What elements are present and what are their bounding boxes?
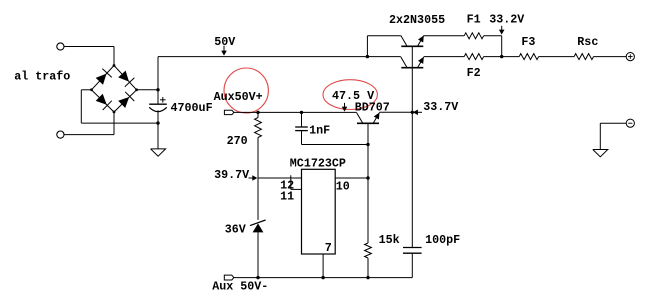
wire (pin 10) xyxy=(335,177,368,179)
wire xyxy=(539,56,575,58)
resistor R2 15k xyxy=(365,243,372,258)
svg-text:al trafo: al trafo xyxy=(14,69,70,83)
node xyxy=(300,111,303,114)
svg-text:36V: 36V xyxy=(225,223,246,237)
wire xyxy=(594,56,627,58)
label 50V with arrow xyxy=(214,35,235,56)
svg-text:15k: 15k xyxy=(379,233,400,247)
wire xyxy=(484,35,502,37)
pin label 11 xyxy=(280,189,294,203)
node xyxy=(321,276,324,279)
wire (pin 11 tie to pin 12) xyxy=(291,175,302,189)
node xyxy=(156,88,159,91)
svg-text:50V: 50V xyxy=(214,35,235,49)
wire (Aux 50V- rail) xyxy=(234,277,412,279)
node xyxy=(366,55,369,58)
part label F3 xyxy=(521,35,535,49)
resistor F3 xyxy=(519,54,538,60)
label 33.7V with arrow xyxy=(413,100,458,115)
resistor R1 270 xyxy=(255,112,262,178)
capacitor C3 100pF xyxy=(403,248,422,278)
label al trafo xyxy=(14,69,70,83)
node (bridge bottom vertex) xyxy=(113,111,116,114)
terminal J4 (output -) xyxy=(626,119,634,127)
part label 2x2N3055 xyxy=(389,13,445,27)
diode D2 (top vertex to right vertex) xyxy=(118,71,134,87)
wire (Aux50V+ net) xyxy=(234,111,357,113)
label 39.7V with arrow xyxy=(214,168,257,182)
part label BD707 xyxy=(355,101,390,115)
wire (pin 12) xyxy=(258,177,302,179)
pin label 7 xyxy=(325,241,332,255)
wire (base rail of Q1/Q2 down to 33.7V node) xyxy=(411,46,413,112)
node xyxy=(366,276,369,279)
svg-text:270: 270 xyxy=(227,134,248,148)
label 33.2V with arrow xyxy=(489,12,524,34)
part label F1 xyxy=(467,12,481,26)
connector (Aux50V+ tab) xyxy=(224,110,234,114)
terminal J2 (AC input, bottom) xyxy=(57,131,64,138)
node xyxy=(366,143,369,146)
svg-text:33.2V: 33.2V xyxy=(489,12,524,26)
node xyxy=(411,111,414,114)
wire (BD707 base lead) xyxy=(367,123,369,144)
wire xyxy=(64,112,114,135)
node xyxy=(256,276,259,279)
svg-text:F1: F1 xyxy=(467,12,481,26)
wire xyxy=(367,145,369,244)
node (bridge top vertex) xyxy=(113,64,116,67)
node (bridge left vertex) xyxy=(90,88,93,91)
wire xyxy=(600,123,626,149)
part label MC1723CP xyxy=(290,157,346,171)
value label 36V xyxy=(225,223,246,237)
resistor Rsc xyxy=(574,54,593,60)
transistor Q1 2N3055 (upper) xyxy=(401,36,424,47)
label Aux 50V- xyxy=(212,279,268,293)
capacitor C1 4700uF (polarized) xyxy=(149,97,167,112)
highlight ellipse (red) around Aux50V+ xyxy=(224,68,268,113)
value label 15k xyxy=(379,233,400,247)
node xyxy=(256,111,259,114)
wire xyxy=(302,144,369,146)
terminal J3 (output +) xyxy=(626,53,634,61)
wire xyxy=(411,112,413,247)
svg-text:Rsc: Rsc xyxy=(577,35,598,49)
wire (50V rail) xyxy=(158,56,401,58)
svg-text:F3: F3 xyxy=(521,35,535,49)
wire xyxy=(257,232,259,277)
svg-text:100pF: 100pF xyxy=(425,233,460,247)
highlight ellipse (red) around 47.5 V xyxy=(323,80,377,110)
diode D4 (bottom vertex to right vertex) xyxy=(118,92,134,108)
resistor F1 xyxy=(464,33,483,39)
label 47.5 V with arrow xyxy=(332,89,374,112)
value label 4700uF xyxy=(171,101,213,115)
svg-text:4700uF: 4700uF xyxy=(171,101,213,115)
wire (BD707 emitter to base rail) xyxy=(380,111,413,113)
ground xyxy=(593,150,608,157)
node xyxy=(366,176,369,179)
node xyxy=(500,55,503,58)
ground xyxy=(151,149,166,156)
label Aux50V+ xyxy=(214,90,263,104)
value label 100pF xyxy=(425,233,460,247)
pin label 10 xyxy=(336,179,350,193)
terminal J1 (AC input, top) xyxy=(57,43,64,50)
op-amp U1 MC1723CP (voltage regulator box) xyxy=(302,169,336,254)
capacitor C2 1nF xyxy=(295,112,308,144)
wire (bridge diamond) xyxy=(92,66,137,113)
wire xyxy=(157,57,159,105)
wire xyxy=(81,90,158,123)
svg-text:7: 7 xyxy=(325,241,332,255)
value label 270 xyxy=(227,134,248,148)
wire xyxy=(157,110,159,148)
transistor Q3 BD707 (driver) xyxy=(357,113,380,124)
node xyxy=(156,121,159,124)
svg-text:MC1723CP: MC1723CP xyxy=(290,157,346,171)
transistor Q2 2N3055 (lower) xyxy=(401,57,424,68)
diode D3 (left vertex to bottom vertex) xyxy=(96,94,112,110)
svg-text:Aux 50V-: Aux 50V- xyxy=(212,279,268,293)
wire xyxy=(64,47,114,66)
svg-text:1nF: 1nF xyxy=(309,123,330,137)
wire (Q1 collector branch) xyxy=(367,36,400,57)
wire xyxy=(424,56,464,58)
svg-text:11: 11 xyxy=(280,189,294,203)
zener diode D5 36V xyxy=(250,220,266,232)
svg-text:2x2N3055: 2x2N3055 xyxy=(389,13,445,27)
svg-text:Aux50V+: Aux50V+ xyxy=(214,90,263,104)
svg-text:10: 10 xyxy=(336,179,350,193)
part label Rsc xyxy=(577,35,598,49)
svg-text:33.7V: 33.7V xyxy=(423,100,458,114)
wire (pin 7) xyxy=(322,254,324,278)
value label 1nF xyxy=(309,123,330,137)
node (bridge right vertex) xyxy=(135,88,138,91)
wire xyxy=(424,35,464,37)
diode D1 (left vertex to top vertex) xyxy=(96,69,112,85)
wire (F1 output down to F2 output) xyxy=(501,36,503,57)
wire xyxy=(484,56,520,58)
wire xyxy=(137,89,158,91)
pin label 12 xyxy=(280,179,294,193)
svg-text:39.7V: 39.7V xyxy=(214,168,249,182)
connector (Aux 50V- tab) xyxy=(224,275,234,280)
wire xyxy=(367,258,369,278)
wire xyxy=(257,178,259,220)
resistor F2 xyxy=(464,54,483,60)
svg-text:F2: F2 xyxy=(467,66,481,80)
part label F2 xyxy=(467,66,481,80)
